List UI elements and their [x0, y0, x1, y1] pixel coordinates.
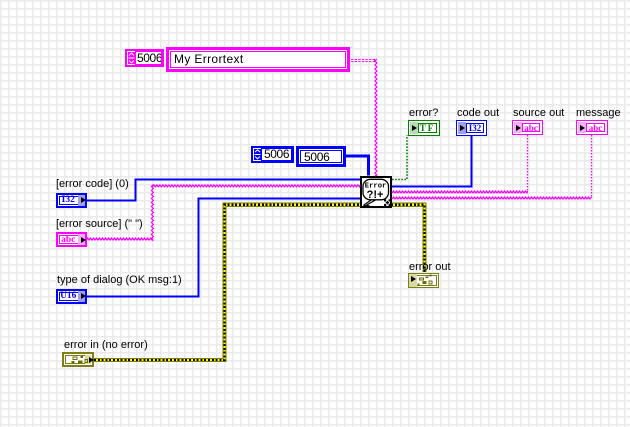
- label: [error code] (0): [56, 179, 129, 190]
- wire: code out (blue): [392, 135, 472, 187]
- control terminal: error in cluster: [62, 352, 94, 367]
- indicator terminal: error? TF: [408, 120, 440, 136]
- label: code out: [457, 108, 499, 119]
- wire: error source (pink zigzag): [86, 238, 152, 240]
- wire: source out (pink): [392, 191, 528, 193]
- control terminal: type of dialog U16: [56, 289, 87, 304]
- wire: error cluster (olive/yellow dashed): [94, 205, 425, 360]
- label: [error source] (" "): [56, 219, 143, 230]
- control terminal: [error source] abc: [56, 232, 87, 247]
- label: source out: [513, 108, 564, 119]
- indicator terminal: code out I32: [456, 120, 487, 136]
- label: error out: [409, 262, 451, 273]
- constant: ring 5006 (pink): [125, 49, 164, 67]
- wire: error code (blue): [84, 180, 360, 201]
- constant: My Errortext string (pink): [166, 47, 350, 72]
- indicator terminal: source out abc: [512, 120, 543, 135]
- wire: error? (green dotted): [392, 135, 407, 180]
- wire: My Errortext string (pink): [351, 59, 376, 62]
- label: error in (no error): [64, 340, 148, 351]
- constant: 5006 (blue, with inc/dec): [251, 146, 294, 163]
- svg-text:?!+: ?!+: [367, 189, 384, 201]
- wire: type of dialog (blue): [85, 199, 360, 297]
- control terminal: [error code] I32: [56, 193, 87, 208]
- indicator terminal: error out cluster: [408, 273, 439, 289]
- label: error?: [409, 108, 438, 119]
- control terminal: 5006 (blue thick): [296, 146, 346, 167]
- label: type of dialog (OK msg:1): [57, 275, 182, 286]
- wire: 5006 constant to icon (blue): [346, 156, 369, 176]
- label: message: [576, 108, 621, 119]
- wire: message (pink): [392, 197, 592, 199]
- indicator terminal: message abc: [576, 120, 608, 135]
- VI icon U1: General Error Handler: [361, 177, 391, 207]
